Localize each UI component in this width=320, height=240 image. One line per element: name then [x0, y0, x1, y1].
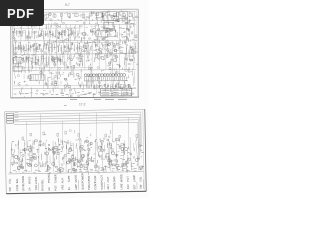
- svg-text:TREB: TREB: [21, 176, 25, 183]
- svg-text:17-2: 17-2: [79, 103, 86, 107]
- svg-text:SEL: SEL: [40, 179, 44, 185]
- svg-text:5-7: 5-7: [65, 3, 70, 7]
- svg-text:LEVEL: LEVEL: [21, 182, 25, 191]
- svg-text:T201: T201: [34, 184, 38, 191]
- svg-text:D12: D12: [126, 184, 130, 190]
- svg-text:POWER: POWER: [80, 173, 84, 183]
- svg-text:FUSE: FUSE: [93, 175, 97, 182]
- svg-text:MODE: MODE: [119, 174, 123, 182]
- svg-text:PHONO: PHONO: [47, 173, 51, 183]
- svg-text:SW: SW: [8, 187, 12, 192]
- svg-text:VOL: VOL: [8, 178, 12, 184]
- svg-text:VR3: VR3: [60, 184, 64, 190]
- svg-text:FILT: FILT: [126, 176, 130, 182]
- svg-text:IN: IN: [67, 187, 71, 190]
- svg-text:C208: C208: [15, 184, 19, 191]
- svg-text:LINE: LINE: [119, 183, 123, 189]
- svg-text:POT: POT: [54, 185, 58, 191]
- svg-text:SET: SET: [132, 184, 136, 190]
- svg-text:OUT: OUT: [106, 176, 110, 182]
- svg-text:LOUD: LOUD: [34, 177, 38, 185]
- svg-text:AMP: AMP: [74, 184, 78, 190]
- svg-text:SPKR: SPKR: [87, 176, 91, 183]
- svg-text:SW: SW: [139, 184, 143, 189]
- svg-text:BASS: BASS: [27, 176, 31, 183]
- svg-text:VOL: VOL: [138, 176, 142, 182]
- svg-text:MUTE: MUTE: [74, 175, 78, 183]
- svg-text:TRIM: TRIM: [87, 183, 91, 190]
- svg-text:TUNER: TUNER: [53, 174, 57, 183]
- svg-text:MON: MON: [112, 183, 116, 189]
- svg-text:PILOT: PILOT: [100, 174, 104, 182]
- svg-text:Q105: Q105: [81, 183, 85, 190]
- svg-text:AUX: AUX: [60, 178, 64, 184]
- svg-text:R105: R105: [100, 182, 104, 189]
- svg-text:BIAS: BIAS: [40, 184, 44, 190]
- svg-text:ADJ: ADJ: [106, 184, 110, 190]
- svg-text:2A: 2A: [28, 187, 32, 191]
- svg-text:CONT: CONT: [93, 182, 97, 190]
- svg-text:BAL: BAL: [15, 178, 19, 184]
- svg-text:AC: AC: [47, 187, 51, 191]
- svg-text:LAMP: LAMP: [132, 175, 136, 183]
- svg-text:TAPE: TAPE: [67, 175, 71, 182]
- svg-text:GND: GND: [112, 176, 116, 182]
